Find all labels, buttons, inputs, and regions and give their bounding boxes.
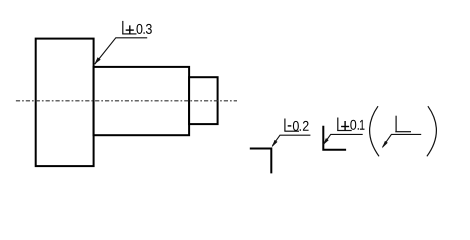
alternate notation perpendicularity symbol — [395, 116, 397, 132]
leader 3 arrowhead — [323, 138, 329, 145]
tolerance text +0.3 — [129, 25, 131, 34]
perpendicularity symbol label 2 — [284, 119, 286, 132]
edge symbol 3 (corner) — [323, 126, 346, 150]
leader 2 arrowhead — [272, 140, 278, 148]
alternate notation leader line — [383, 134, 422, 147]
leader 1 line — [95, 38, 147, 64]
leader 2 line — [272, 135, 310, 146]
leader 3 line — [324, 134, 363, 144]
perpendicularity symbol label 1 — [122, 21, 124, 34]
shaft middle section — [94, 67, 190, 135]
centerline — [16, 100, 237, 102]
edge symbol 2 (corner) — [250, 149, 271, 174]
closing parenthesis — [427, 106, 437, 156]
leader 1 arrowhead — [94, 57, 100, 64]
perpendicularity symbol label 3 — [337, 118, 339, 131]
shaft end section — [189, 77, 218, 124]
tolerance text +0.1 — [344, 121, 346, 131]
tolerance text -0.2 — [288, 125, 292, 127]
opening parenthesis — [370, 106, 379, 156]
flange (large block) — [36, 39, 94, 167]
alternate notation leader arrowhead — [382, 141, 388, 149]
